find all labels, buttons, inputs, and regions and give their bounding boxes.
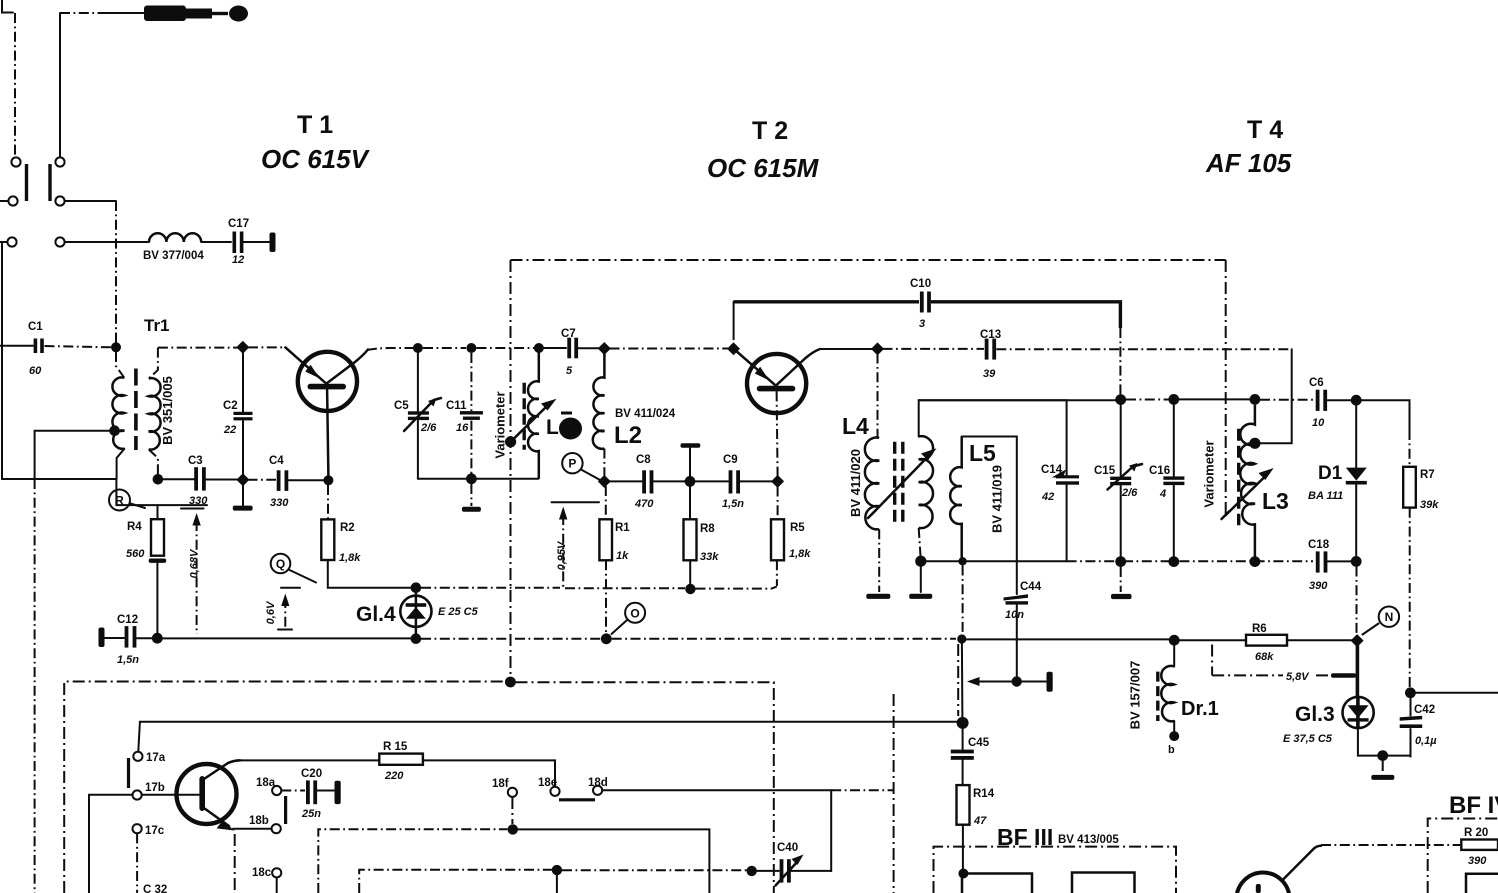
switch contact 1a bbox=[11, 157, 20, 166]
svg-text:2/6: 2/6 bbox=[420, 422, 437, 434]
node C45 top bbox=[957, 717, 969, 729]
node Tr1 secondary bottom bbox=[153, 474, 164, 485]
wire C10 corner down bbox=[1119, 328, 1121, 395]
switch bar 2 bbox=[48, 164, 51, 201]
svg-text:68k: 68k bbox=[1255, 651, 1274, 663]
svg-text:18d: 18d bbox=[588, 777, 608, 789]
wire D1 node to R7 corner bbox=[1362, 400, 1410, 430]
node L3 bottom bbox=[1250, 556, 1261, 567]
svg-text:E 25 C5: E 25 C5 bbox=[438, 606, 479, 618]
svg-text:BF IV: BF IV bbox=[1449, 792, 1498, 819]
wire C10 branch bbox=[733, 302, 735, 330]
ground bar under L4 bbox=[866, 594, 890, 599]
wire rail node to C3 bbox=[163, 478, 194, 480]
svg-text:25n: 25n bbox=[301, 808, 321, 820]
svg-text:33k: 33k bbox=[700, 551, 719, 563]
resistor R6 bbox=[1246, 623, 1287, 663]
wire collector to R20 bbox=[1321, 844, 1461, 846]
transistor T8 base bar bbox=[1256, 884, 1261, 893]
node L4 top (diamond) bbox=[871, 342, 884, 355]
node C2 bottom (diamond) bbox=[236, 473, 249, 486]
svg-text:18c: 18c bbox=[252, 867, 272, 879]
node L1 arrow anchor bbox=[505, 436, 516, 447]
node N junction (diamond) bbox=[1351, 634, 1364, 647]
wire L4 primary bottom to ground bbox=[878, 529, 880, 592]
svg-text:Variometer: Variometer bbox=[493, 391, 508, 458]
node tank bottom bbox=[466, 473, 477, 484]
switch contact 18d bbox=[593, 786, 602, 795]
wire filter bottom bus bbox=[926, 560, 1067, 562]
wire C10 branch dash bbox=[733, 330, 735, 344]
wire link to C45 node bbox=[961, 643, 964, 719]
transistor T2 base lead bbox=[777, 391, 778, 476]
wire O rail middle bbox=[421, 638, 601, 640]
capacitor C13 bbox=[980, 329, 1001, 380]
wire C12 to node bbox=[137, 637, 152, 639]
label L1 with print blob bbox=[546, 412, 582, 440]
wire rail L4 top to C15 bbox=[919, 399, 1116, 401]
switch contact 1c bbox=[7, 237, 16, 246]
svg-text:C4: C4 bbox=[269, 455, 284, 467]
node L2 top (diamond) bbox=[598, 342, 611, 355]
node T2 base (diamond) bbox=[771, 475, 784, 488]
svg-text:5: 5 bbox=[566, 365, 573, 377]
voltage tap 5,8V bbox=[1212, 645, 1356, 684]
mechanical link variometer left bbox=[510, 260, 512, 678]
mechanical link variometer right bbox=[1225, 260, 1227, 516]
wire rail L3 to C6 bbox=[1260, 399, 1315, 401]
svg-text:BV 411/019: BV 411/019 bbox=[990, 465, 1005, 533]
diode Gl.4 bbox=[356, 582, 479, 644]
wire O rail left bbox=[162, 637, 411, 639]
switch bar 1 bbox=[25, 164, 28, 201]
switch bar 18ed bbox=[559, 798, 595, 801]
svg-text:4: 4 bbox=[1159, 488, 1166, 500]
node variometer link bottom bbox=[505, 677, 516, 688]
wire antenna feed solid bbox=[104, 12, 144, 14]
node R1 bottom bbox=[601, 633, 612, 644]
svg-text:BA 111: BA 111 bbox=[1308, 490, 1343, 502]
wire L2 bottom bbox=[603, 449, 605, 477]
svg-text:BV 411/020: BV 411/020 bbox=[848, 449, 863, 517]
capacitor C12 bbox=[99, 614, 140, 666]
capacitor C5 variable bbox=[394, 353, 441, 479]
wire primary bottom to R4 line corner bbox=[116, 479, 207, 505]
inductor L3 winding bbox=[1240, 405, 1255, 557]
svg-text:R2: R2 bbox=[340, 522, 355, 534]
ground bar under C11 bbox=[462, 507, 481, 512]
wire bold detector output bbox=[1356, 645, 1360, 697]
svg-text:T 1: T 1 bbox=[297, 111, 333, 139]
transistor T8 body arc bbox=[1237, 873, 1290, 893]
resistor R4 bbox=[126, 505, 164, 560]
node L4 secondary bottom bbox=[915, 556, 926, 567]
terminal bar under R4 bbox=[149, 559, 167, 563]
capacitor C15 variable bbox=[1094, 405, 1142, 557]
wire ground stub bbox=[1382, 761, 1384, 773]
wire 17b column down bbox=[88, 795, 90, 893]
node C42 top bbox=[1405, 687, 1416, 698]
wire C7 to L2 node bbox=[579, 347, 600, 349]
svg-text:Q: Q bbox=[276, 557, 285, 571]
node D1 bottom bbox=[1351, 556, 1362, 567]
node R8 top bbox=[685, 476, 696, 487]
switch contact 1b bbox=[8, 196, 17, 205]
svg-text:12: 12 bbox=[232, 254, 244, 266]
wire 18f link bbox=[511, 797, 513, 824]
capacitor C44 bbox=[1004, 561, 1042, 677]
node Tr1 primary tap bbox=[109, 425, 120, 436]
diode Gl.3 bbox=[1283, 697, 1374, 745]
svg-text:C13: C13 bbox=[980, 329, 1001, 341]
svg-text:C40: C40 bbox=[777, 842, 798, 854]
wire rail C2 to T1 emitter bbox=[248, 346, 285, 348]
wire link dash parallel bbox=[957, 644, 959, 716]
node L3 tap bbox=[1249, 438, 1260, 449]
arrow variable L3 bbox=[1222, 468, 1274, 519]
wire feeder top bbox=[140, 721, 957, 723]
transistor T1 collector lead bbox=[327, 350, 369, 384]
terminal bar above R8 bbox=[681, 443, 701, 481]
wire rail C16 to L3 bbox=[1179, 398, 1250, 400]
svg-text:L5: L5 bbox=[969, 440, 996, 466]
ground bar under Gl.3 bbox=[1371, 775, 1394, 780]
wire 2c to choke bbox=[65, 241, 149, 243]
node D1 top bbox=[1351, 395, 1362, 406]
switch bar 17 bbox=[127, 758, 130, 788]
svg-text:C10: C10 bbox=[910, 278, 931, 290]
node C5 top bbox=[413, 343, 423, 353]
capacitor C8 bbox=[634, 454, 654, 510]
svg-text:390: 390 bbox=[1468, 855, 1487, 867]
wire 18d to corner bbox=[602, 789, 831, 791]
svg-text:C1: C1 bbox=[28, 321, 43, 333]
svg-text:N: N bbox=[1385, 610, 1394, 624]
resistor R8 bbox=[684, 487, 720, 585]
wire bus 18f left corner bbox=[318, 829, 507, 893]
voltage arrow 0,6V bbox=[265, 594, 292, 630]
svg-text:Variometer: Variometer bbox=[1202, 440, 1217, 507]
wire O rail to Dr1 bbox=[966, 638, 1169, 640]
node L2 bottom (diamond) bbox=[598, 475, 611, 488]
capacitor C18 bbox=[1308, 539, 1330, 592]
node C12 junction bbox=[152, 633, 163, 644]
capacitor C40 variable bbox=[757, 842, 831, 886]
switch contact 18b bbox=[272, 824, 281, 833]
wire rail L1 to C7 bbox=[544, 347, 566, 349]
capacitor C45 bbox=[951, 727, 990, 785]
wire 17b to transistor base bbox=[142, 794, 199, 796]
resistor R2 bbox=[321, 485, 361, 564]
transistor T2 emitter lead bbox=[735, 350, 775, 385]
inductor L5 winding bbox=[950, 437, 962, 562]
capacitor C11 bbox=[446, 353, 483, 474]
svg-text:R 15: R 15 bbox=[383, 741, 408, 753]
svg-text:0,6V: 0,6V bbox=[265, 600, 277, 624]
node R14 to block bbox=[958, 869, 968, 879]
svg-text:2/6: 2/6 bbox=[1121, 487, 1138, 499]
svg-text:1,5n: 1,5n bbox=[117, 654, 139, 666]
svg-text:C11: C11 bbox=[446, 400, 467, 412]
transistor T7 collector lead bbox=[203, 760, 241, 780]
arrow to variometer link bbox=[967, 677, 1012, 686]
wire Q rail Gl.4 to right bbox=[421, 587, 560, 589]
node C15 bottom bbox=[1115, 556, 1126, 567]
svg-text:R14: R14 bbox=[973, 788, 995, 800]
node T2 emitter rail (diamond) bbox=[727, 342, 740, 355]
node P circled bbox=[562, 453, 601, 481]
wire Q rail tick left bbox=[281, 587, 300, 589]
terminal bar right of C44 bbox=[1047, 672, 1053, 692]
node C40 left bbox=[747, 866, 757, 876]
svg-text:330: 330 bbox=[189, 495, 208, 507]
svg-text:18f: 18f bbox=[492, 778, 509, 790]
capacitor C10 bbox=[910, 278, 931, 330]
wire tap feed bbox=[35, 430, 110, 432]
wire 17b left bbox=[89, 794, 132, 796]
wire C1 to Tr1 node bbox=[45, 346, 113, 347]
filter block 2 bbox=[1072, 873, 1135, 893]
svg-text:42: 42 bbox=[1041, 491, 1054, 503]
transistor T7 body bbox=[177, 764, 237, 824]
svg-text:17b: 17b bbox=[145, 782, 165, 794]
wire bus 18f to corner right bbox=[518, 829, 709, 893]
transformer Tr1 primary winding bbox=[112, 377, 124, 448]
inductor L1 winding bbox=[528, 348, 539, 479]
svg-text:R5: R5 bbox=[790, 522, 805, 534]
wire emitter to 18b bbox=[233, 828, 271, 830]
svg-text:C6: C6 bbox=[1309, 377, 1324, 389]
wire primary bottom bbox=[117, 449, 125, 479]
wire Gl.3 bottom to C42 bbox=[1358, 728, 1411, 756]
svg-text:BV 377/004: BV 377/004 bbox=[143, 250, 204, 262]
node Tr1 primary top bbox=[111, 342, 121, 352]
wire Q rail middle bbox=[565, 587, 685, 589]
resistor R1 bbox=[599, 486, 630, 633]
box border to C40 corner bbox=[516, 682, 774, 893]
inductor L4 secondary winding bbox=[919, 436, 933, 528]
wire rail left to C3 bbox=[2, 478, 116, 480]
transistor T2 collector lead bbox=[776, 349, 820, 386]
wire collector to R15 bbox=[238, 759, 379, 761]
svg-text:C45: C45 bbox=[968, 737, 990, 749]
wire rail C13 to corner bbox=[996, 348, 1291, 350]
svg-text:3: 3 bbox=[919, 318, 925, 330]
capacitor C1 bbox=[28, 321, 44, 377]
switch contact 17a bbox=[133, 752, 142, 761]
svg-text:5,8V: 5,8V bbox=[1286, 671, 1310, 683]
svg-text:R1: R1 bbox=[615, 522, 630, 534]
capacitor C16 bbox=[1149, 405, 1184, 557]
inductor L2 winding bbox=[593, 353, 605, 449]
transistor T1 base bar bbox=[308, 384, 347, 390]
svg-text:22: 22 bbox=[223, 424, 236, 436]
antenna plug connector bbox=[144, 6, 248, 22]
svg-text:39k: 39k bbox=[1420, 499, 1439, 511]
svg-text:R: R bbox=[115, 494, 124, 508]
wire rail C15 to C16 bbox=[1126, 399, 1169, 401]
wire O rail right bbox=[612, 638, 956, 640]
wire C10 right to corner bbox=[931, 302, 1120, 328]
node link on O rail bbox=[957, 634, 966, 643]
wire output to right edge bbox=[1416, 692, 1498, 694]
node R circled bbox=[109, 490, 145, 511]
inductor BV 377/004 bbox=[149, 233, 201, 242]
svg-text:OC 615V: OC 615V bbox=[261, 144, 371, 174]
capacitor C6 bbox=[1309, 377, 1327, 429]
svg-text:R6: R6 bbox=[1252, 623, 1267, 635]
svg-text:C42: C42 bbox=[1414, 704, 1435, 716]
switch contact 18a bbox=[272, 786, 281, 795]
switch contact 2a bbox=[55, 157, 64, 166]
node C44 bottom bbox=[1012, 676, 1022, 686]
svg-text:560: 560 bbox=[126, 548, 145, 560]
wire 18c down bbox=[276, 877, 278, 893]
wire C3 to C2 bottom node bbox=[206, 479, 238, 481]
box BF III border bbox=[934, 847, 1177, 893]
wire 18a to C20 bbox=[281, 790, 305, 792]
switch contact 18f bbox=[508, 788, 517, 797]
wire C17 to terminal bbox=[243, 241, 269, 243]
wire Q rail R8 to R5 bbox=[696, 587, 777, 589]
svg-text:C20: C20 bbox=[301, 768, 322, 780]
svg-text:C16: C16 bbox=[1149, 465, 1170, 477]
wire emitter link down bbox=[234, 834, 236, 893]
wire collector rail to L4 node bbox=[820, 348, 873, 350]
wire R6 to N junction bbox=[1287, 639, 1352, 641]
svg-text:10: 10 bbox=[1312, 417, 1325, 429]
svg-text:BF III: BF III bbox=[997, 824, 1053, 850]
node T1 base junction bbox=[323, 475, 333, 485]
svg-text:C44: C44 bbox=[1020, 581, 1042, 593]
svg-text:390: 390 bbox=[1309, 580, 1328, 592]
ground bar under C2 bbox=[233, 506, 253, 511]
wire rail L4 node to C13 bbox=[883, 348, 985, 350]
capacitor C2 bbox=[223, 352, 253, 475]
svg-text:C 32: C 32 bbox=[143, 884, 167, 893]
filter block 1 bbox=[962, 874, 1032, 893]
wire C4 to T1 base node bbox=[289, 479, 329, 481]
svg-text:Gl.4: Gl.4 bbox=[356, 603, 396, 626]
svg-text:1,8k: 1,8k bbox=[339, 552, 361, 564]
wire L5 frame bbox=[962, 437, 1017, 562]
svg-text:18a: 18a bbox=[256, 777, 276, 789]
svg-text:C2: C2 bbox=[223, 400, 238, 412]
wire D1 node down to R6 junction bbox=[1356, 567, 1358, 636]
svg-text:17c: 17c bbox=[145, 825, 165, 837]
capacitor C10 feedback line bbox=[734, 300, 919, 303]
transformer Tr1 secondary winding bbox=[149, 378, 161, 449]
svg-text:1k: 1k bbox=[616, 550, 629, 562]
wire left edge down bbox=[1, 242, 3, 479]
link line down right of 18d bbox=[893, 694, 895, 893]
wire L4 secondary top corner bbox=[919, 400, 1067, 436]
svg-text:C9: C9 bbox=[723, 454, 738, 466]
svg-text:L4: L4 bbox=[842, 413, 869, 439]
svg-text:10n: 10n bbox=[1005, 609, 1024, 621]
wire switch column 2 drop bbox=[59, 13, 61, 156]
wire rail secondary top to C2 bbox=[158, 347, 238, 349]
wire Dr1 node to R6 bbox=[1180, 639, 1246, 641]
svg-text:Gl.3: Gl.3 bbox=[1295, 703, 1335, 726]
wire C40 line middle bbox=[562, 869, 747, 871]
transformer Tr1 core bbox=[134, 369, 138, 451]
svg-text:L: L bbox=[546, 416, 559, 439]
svg-text:0,68V: 0,68V bbox=[189, 548, 201, 578]
svg-text:18b: 18b bbox=[249, 815, 269, 827]
svg-text:18e: 18e bbox=[538, 777, 557, 789]
svg-text:C8: C8 bbox=[636, 454, 651, 466]
node C11 top bbox=[466, 343, 476, 353]
node C16 bottom bbox=[1168, 556, 1179, 567]
wire secondary bottom bbox=[149, 449, 158, 475]
svg-text:T 4: T 4 bbox=[1247, 116, 1283, 144]
svg-text:1,8k: 1,8k bbox=[789, 548, 811, 560]
node N circled bbox=[1363, 607, 1400, 635]
wire C40 line left bbox=[359, 870, 552, 893]
svg-text:D1: D1 bbox=[1318, 463, 1343, 484]
wire node down bbox=[556, 875, 558, 893]
svg-text:60: 60 bbox=[29, 365, 42, 377]
svg-text:220: 220 bbox=[384, 770, 404, 782]
terminal bar after C17 bbox=[270, 233, 276, 253]
wire choke to C17 bbox=[201, 241, 231, 243]
wire rail C5 to C11 bbox=[423, 347, 466, 349]
wire L4 secondary bottom bbox=[919, 528, 921, 556]
svg-text:C5: C5 bbox=[394, 400, 409, 412]
wire C40 branch down bbox=[830, 790, 832, 871]
svg-text:C3: C3 bbox=[188, 455, 203, 467]
arrow variable L4 bbox=[868, 448, 937, 518]
switch contact 2c bbox=[55, 237, 64, 246]
wire tap column lower dash bbox=[34, 479, 36, 893]
wire P node to C8 bbox=[610, 480, 643, 482]
node C2 top (diamond) bbox=[236, 341, 249, 354]
switch contact 2b bbox=[55, 196, 64, 205]
svg-text:R4: R4 bbox=[127, 521, 142, 533]
capacitor C42 bbox=[1400, 698, 1438, 757]
transistor T1 body bbox=[298, 352, 357, 411]
capacitor C17 bbox=[228, 218, 249, 266]
svg-text:1,5n: 1,5n bbox=[722, 498, 744, 510]
node L3 top bbox=[1250, 394, 1261, 405]
wire L4 primary top bbox=[877, 354, 879, 438]
wire C8 to R8 node bbox=[654, 480, 690, 482]
wire C2 node to C4 bbox=[248, 479, 277, 481]
svg-text:R7: R7 bbox=[1420, 469, 1435, 481]
svg-text:R 20: R 20 bbox=[1464, 827, 1488, 839]
arrow variable L1 bbox=[511, 399, 557, 442]
wire node to primary coil bbox=[116, 352, 124, 378]
switch bar 18ab bbox=[284, 796, 287, 824]
resistor R5 bbox=[771, 487, 811, 587]
transistor T2 emitter arrow bbox=[755, 367, 769, 381]
svg-text:330: 330 bbox=[270, 497, 289, 509]
voltage arrow 0,95V bbox=[552, 502, 600, 588]
transistor T7 base bar bbox=[199, 776, 205, 811]
capacitor C4 bbox=[269, 455, 289, 509]
capacitor C3 bbox=[188, 455, 208, 507]
svg-text:R8: R8 bbox=[700, 523, 715, 535]
switch contact 18c bbox=[272, 868, 281, 877]
filter block 3 bbox=[1466, 874, 1498, 893]
svg-text:C12: C12 bbox=[117, 614, 138, 626]
wire C6 to D1 node bbox=[1328, 399, 1352, 401]
svg-text:BV 411/024: BV 411/024 bbox=[615, 408, 676, 420]
transistor T2 base bar bbox=[757, 386, 796, 392]
wire secondary top bbox=[149, 348, 158, 379]
svg-text:C17: C17 bbox=[228, 218, 249, 230]
